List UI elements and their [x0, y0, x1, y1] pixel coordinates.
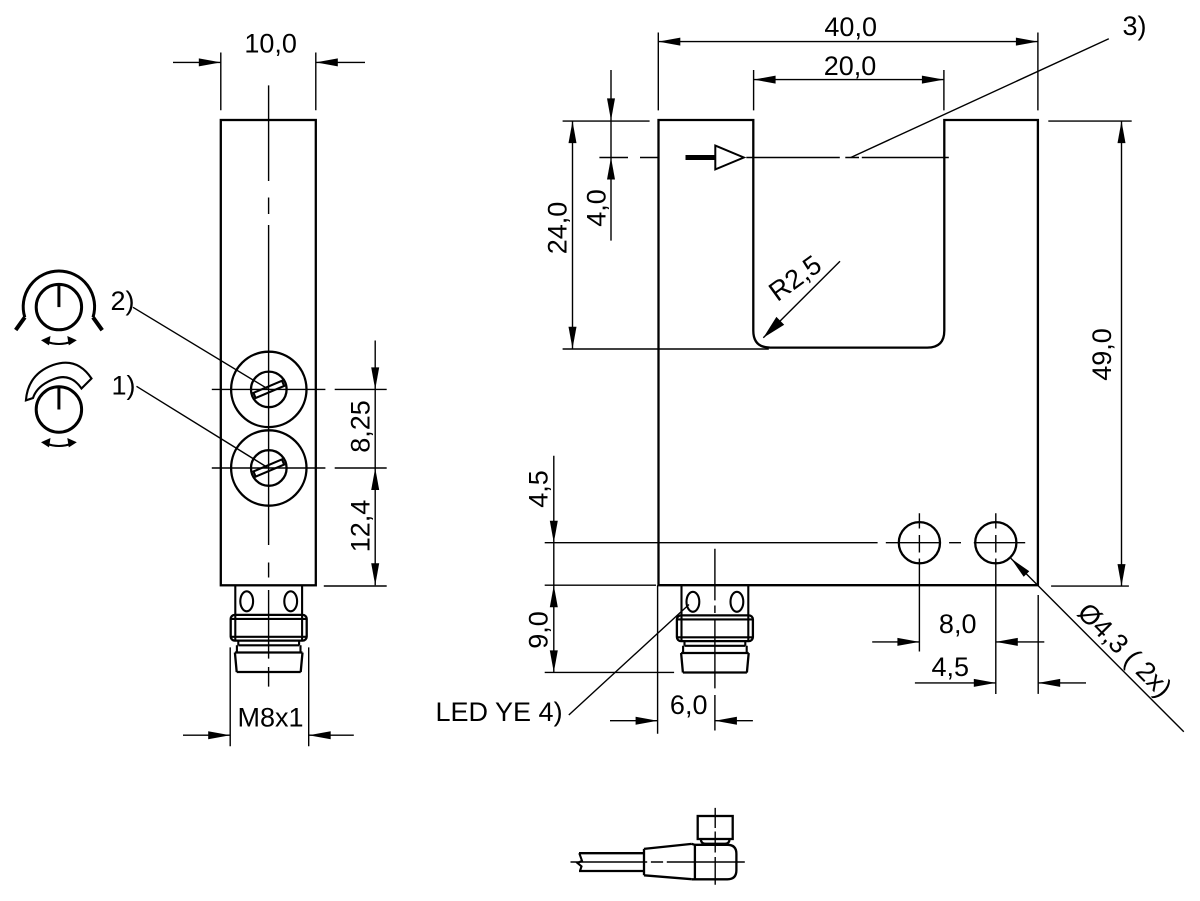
dimension 8,25 line: [374, 341, 376, 469]
svg-text:9,0: 9,0: [524, 611, 554, 649]
svg-text:Ø4,3 ( 2x): Ø4,3 ( 2x): [1072, 597, 1178, 703]
svg-text:49,0: 49,0: [1087, 328, 1117, 381]
diameter 4,3 leader: [1011, 558, 1184, 731]
svg-text:12,4: 12,4: [346, 500, 376, 553]
plug top: [698, 816, 733, 839]
radius R2,5 leader: [763, 261, 840, 337]
dimension 10,0 line and arrows: [173, 61, 365, 63]
dimension 20,0 extension lines: [754, 70, 944, 110]
dimension 4,5 left line: [553, 456, 555, 586]
dimension 12,4 line: [374, 468, 376, 585]
right view fork body outline: [659, 120, 1038, 585]
icon knob 1 rotate arrow: [41, 438, 77, 447]
dimension 9,0 line: [553, 585, 555, 672]
svg-text:M8x1: M8x1: [237, 703, 303, 733]
body left edge extension down: [657, 585, 659, 734]
potentiometer bottom (1): [231, 430, 306, 505]
dimension 20,0 line and arrows: [754, 79, 944, 81]
mounting hole left: [899, 522, 940, 563]
dimension M8x1 line and arrows: [183, 734, 354, 736]
potentiometer top (2): [231, 352, 306, 427]
svg-text:R2,5: R2,5: [763, 249, 827, 307]
svg-text:2): 2): [111, 286, 135, 316]
dimension 40,0 extension lines: [658, 33, 1038, 111]
cable: [579, 853, 644, 871]
dimension 8,0 line and arrows: [872, 641, 1044, 643]
optical axis beam symbol: [640, 146, 949, 170]
angled connector body: [692, 844, 737, 879]
strain relief boot: [644, 844, 692, 879]
hole left vertical centerline: [918, 513, 920, 651]
body right edge extension down: [1037, 595, 1039, 694]
leader LED: [569, 605, 689, 716]
dimension 10,0 extension lines: [221, 53, 316, 111]
svg-text:3): 3): [1123, 11, 1147, 41]
dimension 24,0 extension lines: [563, 121, 769, 349]
svg-text:4,5: 4,5: [524, 470, 554, 508]
svg-text:10,0: 10,0: [244, 29, 297, 59]
dimension 4,5 bottom line and arrows: [915, 682, 1086, 684]
cable break: [578, 853, 583, 871]
svg-text:20,0: 20,0: [824, 51, 877, 81]
svg-text:8,25: 8,25: [346, 400, 376, 453]
M8 connector right view: [677, 586, 753, 673]
svg-text:4,0: 4,0: [582, 189, 612, 227]
dimension 4,0 line and arrows: [599, 70, 628, 241]
plug nut: [701, 840, 730, 844]
dimension 49,0 extension lines: [1048, 121, 1131, 586]
hole horizontal centerline: [545, 542, 1025, 544]
icon knob 2 (endless turn): [16, 271, 103, 330]
pot bottom horizontal centerline: [212, 467, 387, 469]
leader 1): [137, 386, 268, 467]
dimension 6,0 line and arrows: [610, 720, 753, 722]
icon knob 1 (limited turn): [26, 363, 92, 433]
left view body outline: [221, 120, 316, 585]
svg-text:24,0: 24,0: [543, 202, 573, 255]
svg-text:LED YE 4): LED YE 4): [436, 697, 563, 727]
dimension M8x1 extension lines: [230, 647, 309, 746]
bottom connector horizontal centerline: [571, 861, 745, 863]
M8 connector left view: [231, 585, 307, 672]
icon knob 2 rotate arrow: [41, 336, 77, 345]
mounting hole right: [975, 522, 1016, 563]
svg-text:1): 1): [112, 371, 136, 401]
svg-text:8,0: 8,0: [939, 609, 977, 639]
extension lines left of body bottom: [545, 585, 674, 672]
dimension 24,0 line and arrows: [572, 121, 574, 349]
svg-text:6,0: 6,0: [670, 690, 708, 720]
leader 2): [133, 307, 268, 388]
svg-text:40,0: 40,0: [824, 12, 877, 42]
dimension 40,0 line and arrows: [658, 41, 1038, 43]
svg-text:4,5: 4,5: [932, 652, 970, 682]
right connector centerline: [714, 549, 716, 731]
left view vertical centerline: [268, 85, 270, 686]
bottom connector vertical centerline: [714, 808, 716, 885]
leader 3): [851, 39, 1109, 158]
pot top horizontal centerline: [212, 388, 387, 390]
dimension 49,0 line and arrows: [1121, 121, 1123, 586]
hole right vertical centerline: [995, 513, 997, 694]
body bottom extension line left view: [324, 585, 387, 587]
